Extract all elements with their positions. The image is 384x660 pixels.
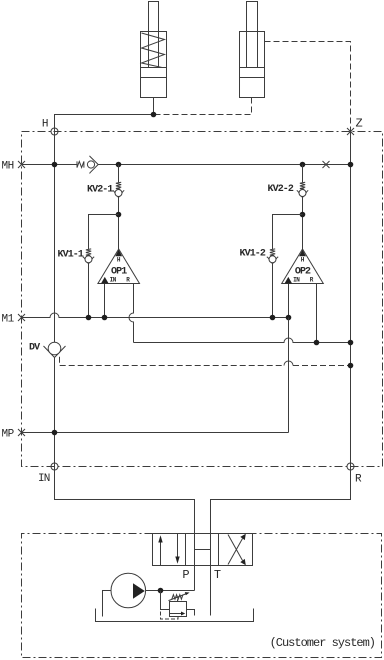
op valve OP2 apex arrow [299, 250, 306, 257]
node KV2-2 bottom junction [300, 212, 306, 218]
wire Z line vertical (Z to R) [349, 132, 351, 467]
wire M1 to MP riser [287, 318, 289, 433]
relief valve spring [172, 595, 183, 600]
cylinder ZY1 spring [142, 33, 165, 68]
relief valve adjust arrow [168, 594, 185, 601]
wire KV1-2 branch [273, 215, 303, 318]
node KV2-1 bottom junction [116, 212, 122, 218]
relief valve internal arrow [169, 612, 181, 614]
wire DV pilot dashed to Z line [59, 357, 350, 366]
wire KV2-2 branch from MH [302, 165, 304, 250]
port IN symbol [51, 463, 58, 470]
relief valve pilot dashed [160, 611, 178, 619]
check valve MV seat [90, 156, 99, 174]
check valve MV ball [87, 161, 94, 168]
wire pump outlet [146, 589, 195, 591]
cylinder ZY1 rod [149, 1, 159, 67]
check valve KV2-2 seat [297, 190, 308, 197]
directional valve body [152, 533, 252, 565]
svg-text:R: R [310, 277, 314, 284]
svg-text:P: P [182, 568, 189, 582]
check valve KV1-1 seat [83, 257, 94, 264]
svg-text:T: T [214, 568, 221, 582]
wire port H to node T1 [55, 114, 154, 131]
svg-text:R: R [126, 277, 130, 284]
wire pump inlet [102, 590, 111, 616]
node MH x H junction [52, 162, 58, 168]
directional valve right position cross arrows [228, 535, 243, 565]
node M1 x KV1-2 [270, 315, 276, 321]
wire valve P to pump [193, 566, 195, 591]
check valve KV2-1 seat [113, 190, 124, 197]
port MH symbol [18, 161, 25, 168]
svg-text:KV1-2: KV1-2 [240, 249, 266, 260]
svg-text:IN: IN [38, 473, 50, 485]
check valve KV2-1 ball [115, 189, 122, 196]
check valve KV1-2 seat [267, 257, 278, 264]
check valve KV1-1 spring [86, 249, 91, 256]
wire KV2-1 branch from MH [118, 164, 120, 249]
relief valve outlet [186, 609, 194, 615]
svg-text:MH: MH [2, 160, 14, 172]
check valve KV1-2 ball [269, 256, 276, 263]
svg-text:IN: IN [293, 277, 300, 284]
svg-text:H: H [42, 118, 49, 130]
node MP x H line [52, 430, 58, 436]
wire cylinder ZY1 to node T1 [153, 97, 155, 114]
op valve OP2 triangle [282, 249, 324, 284]
directional valve centre crossbar [194, 549, 210, 551]
directional valve left position down arrow [176, 533, 178, 557]
node T1 junction [151, 112, 157, 118]
check valve KV2-2 ball [299, 190, 306, 197]
check valve KV1-1 ball [85, 256, 92, 263]
relief valve branch [160, 590, 169, 609]
wire OP2 IN to M1 [288, 284, 290, 318]
node MH x KV2-2 junction [300, 162, 306, 168]
op valve OP1 IN arrow [101, 277, 109, 284]
tank symbol [95, 608, 253, 621]
check valve DV ball [48, 342, 61, 355]
wire OP1 R to R-rail with jump over M1 [129, 283, 134, 342]
cylinder ZY1 (spring return) body [141, 1, 167, 114]
svg-text:H: H [117, 256, 121, 263]
svg-text:H: H [301, 256, 305, 263]
customer system box [21, 533, 381, 657]
wire valve T to tank [209, 566, 211, 616]
svg-text:R: R [355, 474, 362, 486]
node MH x KV2-1 junction [116, 162, 122, 168]
wire MH rail [22, 163, 351, 165]
check valve KV2-2 spring [300, 182, 305, 189]
svg-text:MP: MP [1, 428, 14, 440]
wire R port to valve T [210, 467, 350, 534]
wire IN port to valve P [54, 466, 194, 533]
check valve MV spring [77, 161, 84, 167]
svg-text:KV2-1: KV2-1 [87, 184, 113, 195]
op valve OP1 apex arrow [115, 250, 122, 257]
svg-text:Z: Z [356, 117, 363, 131]
svg-text:IN: IN [110, 277, 117, 284]
node DV pilot x Z line [348, 363, 354, 369]
port H symbol [51, 128, 58, 135]
manifold boundary box [21, 131, 382, 466]
port MP symbol [18, 429, 25, 436]
check valve KV2-1 spring [116, 182, 121, 189]
svg-text:DV: DV [29, 342, 40, 353]
wire OP2 R down to R-rail [315, 284, 317, 343]
wire dashed cylinder ZY2 bottom to node T1 [154, 97, 252, 114]
wire R-rail (OP1 R to OP2 R to Z line) with jump over riser [133, 338, 350, 343]
directional valve centre position P line [193, 534, 195, 566]
node M1 x KV1-1 [86, 315, 92, 321]
directional valve dividers [185, 533, 218, 565]
cylinder ZY2 piston [240, 68, 265, 78]
node R-rail x Z line [348, 340, 354, 346]
node pump outlet x relief branch [158, 588, 164, 594]
wire MP rail [21, 431, 288, 433]
wire M1 rail with jump over H line [22, 313, 289, 318]
blocked crossing symbol on MH rail [323, 161, 330, 168]
wire OP1 IN to M1 [104, 283, 106, 317]
relief valve body [169, 601, 186, 616]
op valve OP2 IN arrow [285, 277, 293, 284]
port M1 symbol [18, 314, 25, 321]
cylinder ZY2 rod [247, 2, 258, 68]
port Z symbol [347, 128, 354, 135]
svg-text:KV1-1: KV1-1 [58, 249, 84, 260]
pump circle [111, 573, 146, 608]
wire KV1-1 branch [89, 214, 119, 317]
relief valve spring stem [176, 599, 178, 601]
cylinder ZY1 piston [141, 67, 167, 77]
directional valve left position up arrow [159, 541, 161, 565]
wire dashed cylinder ZY2 side port to port Z [265, 42, 351, 132]
svg-text:KV2-2: KV2-2 [268, 184, 294, 195]
node M1 x MP riser [286, 315, 292, 321]
check valve DV seat [43, 346, 65, 358]
directional valve centre position T line [209, 534, 211, 566]
wire DV pilot jump over riser [284, 361, 293, 366]
check valve KV1-2 spring [270, 249, 275, 256]
svg-text:M1: M1 [2, 313, 15, 325]
svg-text:(Customer system): (Customer system) [270, 636, 375, 650]
pump triangle [133, 583, 145, 598]
node R-rail x OP2 R [314, 340, 320, 346]
cylinder ZY2 body [240, 2, 265, 98]
port R symbol [347, 463, 354, 470]
op valve OP1 triangle [98, 249, 140, 284]
node M1 x OP1 IN [102, 315, 108, 321]
wire H line vertical (H to DV to IN) [53, 131, 55, 466]
node MH x Z junction [348, 162, 354, 168]
